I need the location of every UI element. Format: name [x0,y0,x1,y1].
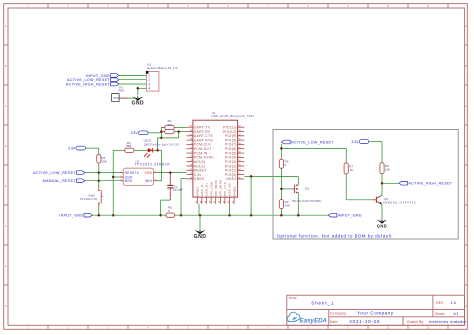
net flag ACTIVE_HIGH_RESET (block) [399,182,453,186]
wire [161,150,163,180]
junction [381,182,384,185]
svg-text:H: H [465,306,467,308]
svg-text:C: C [5,106,7,108]
wire [297,193,299,216]
net flag ACTIVE_HIGH_RESET (header) [66,82,119,86]
resistor R4 [113,141,147,153]
mosfet Q1 IRLML6402TRPBF [292,184,322,203]
wire [148,132,162,134]
power flag 3.3V (a) [131,131,148,135]
junction [297,214,300,217]
svg-text:G: G [465,266,467,268]
svg-text:MR#: MR# [125,179,133,183]
wire [98,163,100,186]
wire [156,138,158,150]
svg-text:4: 4 [148,87,150,91]
junction [137,87,140,90]
svg-text:10K: 10K [101,160,107,164]
svg-text:elektronis matador: elektronis matador [429,319,467,324]
ic U2 TPS3823-33DBVR [120,159,170,185]
svg-text:RESET#: RESET# [125,171,139,175]
svg-text:0603Yellow light 90-110: 0603Yellow light 90-110 [144,142,179,146]
svg-text:VDD: VDD [145,171,153,175]
net flag INPUT_GND (header) [86,74,119,78]
ic U1 NSP_HC05_Bluetooth_T001 [187,111,255,204]
wire [112,150,114,215]
svg-text:SPI_CSB: SPI_CSB [209,181,213,196]
net flag ACTIVE_LOW_RESET (header) [67,78,119,82]
svg-text:F: F [5,226,7,228]
connector H1 Header-Male-2.54_1x4 [146,62,178,91]
wire [86,147,99,149]
svg-text:GND2: GND2 [196,187,200,197]
wire [85,180,121,182]
wire [381,142,383,163]
svg-text:USB_D+: USB_D+ [205,183,209,197]
svg-text:A: A [5,25,7,28]
svg-text:10K: 10K [285,204,291,208]
junction [280,188,283,191]
wire (rail right) [175,214,329,216]
svg-text:ACTIVE_HIGH_RESET: ACTIVE_HIGH_RESET [408,182,452,186]
wire [153,149,162,151]
resistor R3 [97,154,108,163]
net flag MANUAL_RESET [43,179,85,183]
svg-text:REV:: REV: [436,301,444,305]
svg-text:0: 0 [168,209,170,213]
wire [181,178,187,180]
svg-text:B: B [5,66,7,68]
wire [157,137,178,139]
wire [198,204,200,215]
junction [169,171,172,174]
svg-text:LED1: LED1 [144,138,152,142]
svg-text:EasyEDA: EasyEDA [300,317,328,324]
svg-text:Header-Male-2.54_1x4: Header-Male-2.54_1x4 [147,66,178,70]
svg-text:GND5: GND5 [232,187,236,197]
net flag INPUT_GND (block) [328,213,362,217]
svg-text:SPI_MOSI: SPI_MOSI [214,180,218,197]
svg-text:Date:: Date: [330,320,339,324]
wire (rail left) [92,214,165,216]
junction [180,214,183,217]
svg-text:B: B [465,66,467,68]
svg-text:0: 0 [285,163,287,167]
svg-text:Q1: Q1 [305,187,309,191]
power flag 3.3V (b) [68,146,85,150]
svg-text:3.3V: 3.3V [68,146,76,150]
wire [345,174,347,200]
junction [250,175,253,178]
wire [178,132,180,138]
svg-text:E: E [465,186,467,188]
resistor R5 [279,159,288,168]
svg-text:3.3V: 3.3V [351,140,359,144]
LED LED1 0603 yellow [144,138,180,158]
svg-text:680: 680 [126,144,131,148]
wire [179,131,187,133]
junction [280,214,283,217]
wire [160,127,162,137]
wire [160,200,162,215]
wire [381,195,383,197]
power flag 3.3V (c) [351,140,368,144]
svg-text:NSP_HC05_Bluetooth_T001: NSP_HC05_Bluetooth_T001 [212,114,255,118]
ground (Q3) [377,219,387,228]
wire [281,188,292,190]
svg-text:ACTIVE_HIGH_RESET: ACTIVE_HIGH_RESET [66,82,110,86]
ground (header) [131,96,144,106]
junction [112,176,115,179]
title block grid [287,295,465,325]
svg-text:GND1: GND1 [226,177,237,181]
resistor R6 [166,206,175,218]
net flag ACTIVE_LOW_RESET [33,171,85,175]
svg-text:10K: 10K [385,168,391,172]
resistor R7 [344,163,354,174]
svg-text:D: D [465,146,467,148]
wire [119,83,146,85]
wire [180,179,182,216]
svg-text:1K: 1K [349,168,354,172]
wire [280,209,282,216]
logo EasyEDA [287,312,327,324]
svg-text:C: C [465,106,467,108]
wire [138,87,147,89]
wire [381,174,383,196]
resistor R2 [161,123,178,134]
svg-text:GND: GND [194,234,207,240]
svg-text:INPUT_GND: INPUT_GND [338,214,362,218]
junction [160,130,163,133]
svg-text:Optional function. Not added t: Optional function. Not added to BOM by d… [277,233,393,238]
junction [98,171,101,174]
junction [160,137,163,140]
wire [161,199,171,201]
junction [112,214,115,217]
wire [229,204,231,215]
svg-text:WDI: WDI [145,179,152,183]
svg-text:MANUAL_RESET: MANUAL_RESET [43,179,77,183]
svg-text:IRLML6402TRPBF: IRLML6402TRPBF [292,199,322,203]
net flag INPUT_GND [59,213,92,217]
svg-text:S9B050_C444722: S9B050_C444722 [383,201,416,205]
junction [98,179,101,182]
svg-text:Sheet_1: Sheet_1 [311,301,334,306]
svg-text:R2: R2 [168,123,172,127]
pad H2 [112,85,129,101]
wire [85,172,121,174]
wire [98,148,100,154]
svg-text:PAD: PAD [114,96,119,100]
svg-text:1/1: 1/1 [453,311,459,316]
wire [156,172,186,174]
junction [159,214,162,217]
svg-text:GND: GND [131,101,144,107]
junction [98,214,101,217]
resistor R9 [279,200,291,209]
svg-text:PAD: PAD [118,89,124,93]
capacitor C1 100nF [167,173,183,201]
transistor Q3 SS8050 [372,195,416,204]
svg-text:USB_5V: USB_5V [228,182,232,196]
wire [280,168,282,199]
svg-text:INPUT_GND: INPUT_GND [59,214,83,218]
wire [369,141,382,143]
svg-text:ACTIVE_LOW_RESET: ACTIVE_LOW_RESET [33,171,76,175]
wire [280,144,282,160]
junction [250,214,253,217]
wire [156,180,161,182]
svg-text:Sheet:: Sheet: [435,312,445,316]
resistor R8 [380,163,391,174]
wire [297,176,299,185]
optional function box [273,130,458,240]
wire [137,88,139,95]
svg-text:1.0: 1.0 [451,300,457,305]
wire [250,176,252,215]
svg-text:TITLE:: TITLE: [288,296,297,300]
junction [280,147,283,150]
junction [156,149,159,152]
junction [177,130,180,133]
svg-text:A: A [465,25,467,28]
switch SW2 TS-1101-C-W [79,186,102,208]
wire [119,74,146,76]
svg-text:Drawn By:: Drawn By: [407,320,424,324]
wire [381,204,383,219]
svg-text:G: G [5,266,7,268]
wire [119,79,146,81]
svg-text:H: H [5,306,7,308]
svg-text:3.3V: 3.3V [131,131,139,135]
wire [98,208,100,216]
ground (under U1) [194,215,207,240]
svg-text:E: E [5,186,7,188]
svg-text:SPI_MISO: SPI_MISO [219,179,223,196]
junction [199,214,202,217]
wire [113,176,120,178]
svg-text:GND0: GND0 [194,177,205,181]
svg-text:Your Company: Your Company [357,311,394,316]
svg-text:SPI_CLK: SPI_CLK [223,181,227,196]
junction [228,214,231,217]
wire [382,182,399,184]
svg-text:2021-10-26: 2021-10-26 [349,319,380,324]
wire [345,148,347,163]
wire (to optional block) [244,175,298,177]
resistor R1 [161,119,186,129]
svg-text:D: D [5,146,7,148]
wire [281,147,346,149]
svg-text:ACTIVE_LOW_RESET: ACTIVE_LOW_RESET [291,140,334,144]
svg-text:USB_D-: USB_D- [200,183,204,196]
wire [346,199,372,201]
svg-text:Company:: Company: [330,311,348,315]
svg-text:GND: GND [377,224,387,229]
svg-text:100nF: 100nF [172,188,183,192]
svg-text:TPS3823-33DBVR: TPS3823-33DBVR [135,163,171,167]
svg-text:TS-1101-C-W: TS-1101-C-W [79,197,97,201]
net flag ACTIVE_LOW_RESET (block) [281,140,334,144]
wire [129,97,136,99]
